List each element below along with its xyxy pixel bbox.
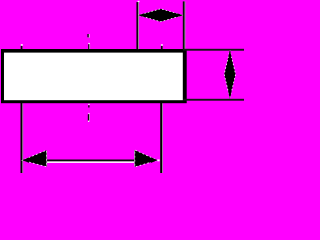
right dimension: top extension line bbox=[183, 49, 244, 51]
hidden dashed centerline (x=88), dash above rectangle #2 bbox=[88, 43, 90, 49]
hidden dashed centerline (x=88), dash above rectangle #1 bbox=[87, 34, 89, 38]
top dimension: double arrowhead diamond bbox=[138, 9, 183, 22]
part outline: white rectangle with black border bbox=[1, 49, 187, 103]
right extension line of bottom dimension (x=161) bbox=[160, 44, 163, 173]
right dimension: bottom extension line bbox=[183, 99, 244, 101]
hidden dashed centerline (x=88), dash below rectangle #2 bbox=[88, 113, 90, 122]
hidden dashed centerline (x=88), dash below rectangle #1 bbox=[88, 104, 89, 108]
bottom dimension: shaft line with white anti-alias fringe bbox=[47, 160, 136, 163]
left extension line of bottom dimension (x=21.5) bbox=[21, 44, 24, 173]
right dimension: double arrowhead diamond bbox=[224, 50, 235, 98]
bottom dimension: left arrowhead bbox=[22, 150, 47, 166]
top dimension: left extension line bbox=[136, 1, 139, 49]
top dimension: right extension line bbox=[183, 1, 186, 49]
bottom dimension: right arrowhead bbox=[134, 150, 159, 167]
